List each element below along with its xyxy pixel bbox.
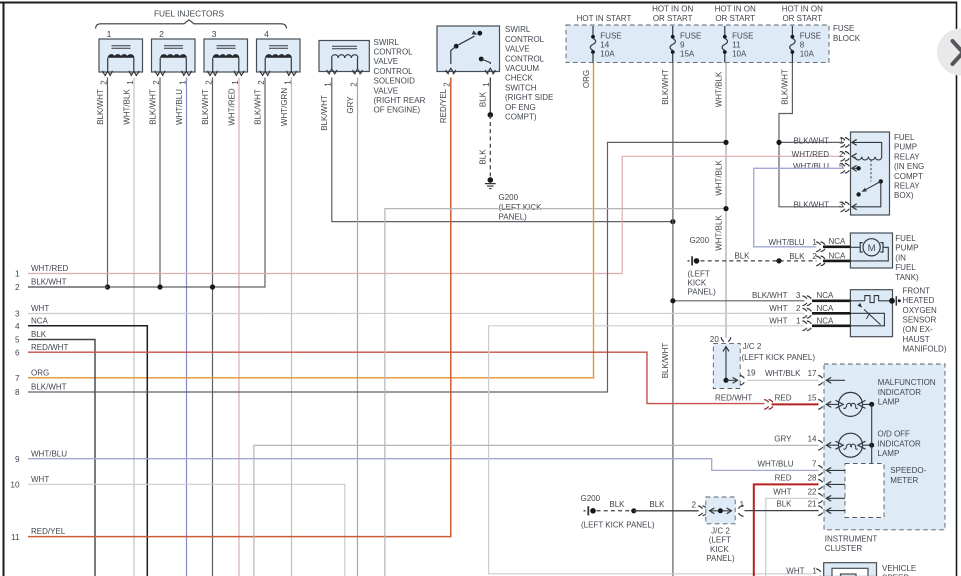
svg-text:CHECK: CHECK <box>505 74 534 83</box>
svg-text:OF ENGINE): OF ENGINE) <box>374 106 421 115</box>
wire solenoid pin2 GRY <box>346 78 358 576</box>
svg-text:(IN: (IN <box>895 253 906 262</box>
svg-text:15: 15 <box>808 393 817 402</box>
page border top <box>0 2 957 4</box>
page border left <box>3 2 5 576</box>
svg-text:FUEL INJECTORS: FUEL INJECTORS <box>154 9 225 19</box>
svg-text:CONTROL: CONTROL <box>505 54 545 63</box>
svg-text:CLUSTER: CLUSTER <box>825 544 863 553</box>
wire line 10 WHT <box>10 475 344 576</box>
svg-text:KICK: KICK <box>710 545 729 554</box>
svg-text:BLK/WHT: BLK/WHT <box>253 89 262 125</box>
svg-text:OXYGEN: OXYGEN <box>903 306 937 315</box>
svg-text:VALVE: VALVE <box>505 45 530 54</box>
svg-text:BLK/WHT: BLK/WHT <box>31 383 67 392</box>
svg-text:BLK/WHT: BLK/WHT <box>320 95 329 131</box>
svg-text:ORG: ORG <box>31 368 49 377</box>
wire injector4 pin2 BLK/WHT <box>28 78 265 288</box>
svg-text:WHT/BLU: WHT/BLU <box>31 449 67 458</box>
svg-text:WHT/BLU: WHT/BLU <box>769 238 805 247</box>
svg-text:VEHICLE: VEHICLE <box>882 564 916 573</box>
svg-text:VALVE: VALVE <box>374 86 399 95</box>
svg-text:G200: G200 <box>581 494 601 503</box>
wire line 9 WHT/BLU <box>15 449 819 470</box>
fuse 8 10A <box>782 4 823 62</box>
wire ORG from fuse 14 <box>28 63 594 378</box>
svg-text:TANK): TANK) <box>895 273 919 282</box>
wire BLK/WHT from fuse 8 to relay pins 1 and 3 <box>776 63 844 207</box>
svg-text:PANEL): PANEL) <box>499 213 528 222</box>
svg-text:INDICATOR: INDICATOR <box>878 439 921 448</box>
svg-text:FUSE: FUSE <box>600 31 621 40</box>
svg-text:G200: G200 <box>690 236 710 245</box>
svg-text:SENSOR: SENSOR <box>903 315 937 324</box>
svg-text:VACUUM: VACUUM <box>505 64 539 73</box>
svg-text:SWIRL: SWIRL <box>374 38 400 47</box>
svg-text:RED: RED <box>775 393 792 402</box>
svg-text:NCA: NCA <box>817 316 835 325</box>
wire solenoid pin1 BLK/WHT to fuse9 feed <box>320 78 675 225</box>
svg-text:22: 22 <box>808 487 817 496</box>
svg-text:WHT: WHT <box>773 487 791 496</box>
svg-text:METER: METER <box>890 476 918 485</box>
svg-text:20: 20 <box>710 335 720 344</box>
ground G200 at check switch <box>485 177 542 221</box>
svg-text:RED/WHT: RED/WHT <box>715 393 752 402</box>
svg-text:HOT IN ON: HOT IN ON <box>652 4 693 13</box>
fuel injector 4 <box>257 29 301 85</box>
junction connector J/C 2 lower <box>691 497 744 563</box>
svg-text:FUEL: FUEL <box>895 263 916 272</box>
svg-text:(RIGHT REAR: (RIGHT REAR <box>374 96 426 105</box>
svg-text:(LEFT KICK PANEL): (LEFT KICK PANEL) <box>581 520 655 529</box>
svg-text:BLK: BLK <box>31 330 47 339</box>
oxygen sensor pin labels and NCA stubs <box>752 291 850 330</box>
svg-text:WHT/BLK: WHT/BLK <box>122 89 131 125</box>
svg-text:1: 1 <box>107 29 112 39</box>
fuel pump caption <box>895 234 919 282</box>
fuel pump pin labels and NCA stubs <box>769 237 851 266</box>
svg-text:1: 1 <box>839 136 844 145</box>
svg-text:MANIFOLD): MANIFOLD) <box>903 344 947 353</box>
svg-text:BLK: BLK <box>479 91 488 107</box>
wire BLK/WHT from fuse 9 <box>661 63 673 576</box>
svg-text:OR START: OR START <box>782 14 822 23</box>
svg-text:COMPT): COMPT) <box>505 113 537 122</box>
svg-text:WHT/BLU: WHT/BLU <box>758 459 794 468</box>
svg-text:PANEL): PANEL) <box>706 554 735 563</box>
wire line 7 ORG <box>15 368 49 383</box>
cluster internal bus to speedometer <box>871 404 873 463</box>
wire injector3 pin2 BLK/WHT <box>201 78 213 576</box>
svg-text:5: 5 <box>15 336 20 345</box>
svg-text:WHT: WHT <box>769 316 787 325</box>
svg-text:BLK: BLK <box>609 500 625 509</box>
svg-text:8: 8 <box>800 40 805 49</box>
svg-text:NCA: NCA <box>31 316 49 325</box>
svg-text:ORG: ORG <box>582 70 591 88</box>
svg-text:BLK: BLK <box>789 252 805 261</box>
wire injector1 pin2 BLK/WHT <box>96 78 108 288</box>
svg-text:1: 1 <box>740 500 745 509</box>
svg-text:9: 9 <box>680 40 685 49</box>
svg-text:WHT/RED: WHT/RED <box>227 88 236 126</box>
svg-text:LAMP: LAMP <box>878 398 900 407</box>
svg-text:17: 17 <box>808 369 817 378</box>
wire line 8 BLK/WHT <box>15 142 726 397</box>
svg-text:NCA: NCA <box>817 291 835 300</box>
wire RED thick to cluster pin15 <box>772 403 819 405</box>
svg-text:1: 1 <box>812 566 817 575</box>
wire line 11 RED/YEL <box>11 78 451 542</box>
svg-text:8: 8 <box>15 388 20 397</box>
svg-text:CONTROL: CONTROL <box>374 67 414 76</box>
svg-text:VALVE: VALVE <box>374 57 399 66</box>
wire injector2 pin2 BLK/WHT <box>148 78 160 288</box>
svg-text:GRY: GRY <box>346 96 355 114</box>
svg-text:RELAY: RELAY <box>894 152 920 161</box>
svg-text:WHT/BLU: WHT/BLU <box>793 162 829 171</box>
svg-text:BLK/WHT: BLK/WHT <box>96 89 105 125</box>
oxygen sensor caption <box>903 287 947 354</box>
svg-text:3: 3 <box>796 291 801 300</box>
svg-text:FRONT: FRONT <box>903 287 931 296</box>
fuel injector 2 <box>152 29 196 85</box>
svg-text:WHT: WHT <box>786 566 804 575</box>
vacuum check switch caption <box>505 25 553 121</box>
svg-text:PUMP: PUMP <box>894 143 917 152</box>
svg-text:INSTRUMENT: INSTRUMENT <box>825 534 878 543</box>
svg-text:WHT/BLK: WHT/BLK <box>714 71 723 107</box>
svg-text:(RIGHT SIDE: (RIGHT SIDE <box>505 93 553 102</box>
fuel pump relay caption <box>894 133 924 200</box>
svg-text:BLK/WHT: BLK/WHT <box>781 69 790 105</box>
svg-text:10: 10 <box>10 481 20 490</box>
solenoid valve swirl control <box>319 41 369 87</box>
wire line 5 BLK <box>15 330 95 576</box>
svg-text:2: 2 <box>15 283 20 292</box>
svg-text:BLK/WHT: BLK/WHT <box>793 201 829 210</box>
wire line 6 RED/WHT <box>15 343 765 404</box>
fuel injector 1 <box>99 29 143 85</box>
svg-text:3: 3 <box>212 29 217 39</box>
svg-text:CONTROL: CONTROL <box>505 35 545 44</box>
svg-text:BLK/WHT: BLK/WHT <box>661 69 670 105</box>
svg-text:COMPT: COMPT <box>894 172 923 181</box>
svg-text:14: 14 <box>808 434 817 443</box>
svg-text:O/D OFF: O/D OFF <box>878 430 911 439</box>
svg-text:BLOCK: BLOCK <box>833 34 861 43</box>
svg-text:SWIRL: SWIRL <box>505 25 531 34</box>
svg-text:BLK/WHT: BLK/WHT <box>793 136 829 145</box>
junction dots on BLK/WHT line 2 <box>105 284 215 289</box>
svg-text:10A: 10A <box>800 49 815 58</box>
svg-text:J/C 2: J/C 2 <box>743 342 762 351</box>
svg-text:7: 7 <box>15 374 20 383</box>
fuel pump relay <box>841 132 890 215</box>
svg-text:BLK: BLK <box>776 500 792 509</box>
wire oxygen pin1 WHT down and to vehicle speed sensor <box>489 326 813 574</box>
svg-text:7: 7 <box>812 459 817 468</box>
svg-text:2: 2 <box>839 150 844 159</box>
svg-text:INDICATOR: INDICATOR <box>878 388 921 397</box>
svg-text:4: 4 <box>15 322 20 331</box>
svg-text:WHT/RED: WHT/RED <box>792 150 830 159</box>
wire injector3 pin1 WHT/RED <box>227 78 239 576</box>
cluster pin connectors and arrows <box>818 375 845 515</box>
svg-text:BLK: BLK <box>649 500 665 509</box>
svg-text:(IN ENG: (IN ENG <box>894 162 924 171</box>
svg-text:SPEEDO-: SPEEDO- <box>890 466 926 475</box>
svg-text:9: 9 <box>15 455 20 464</box>
wire injector2 pin1 WHT/BLU <box>175 78 187 576</box>
wire line 4 NCA <box>15 316 147 576</box>
svg-text:15A: 15A <box>680 49 695 58</box>
svg-text:M: M <box>868 243 876 254</box>
svg-text:WHT: WHT <box>31 475 49 484</box>
wire line 3 WHT <box>15 304 805 319</box>
wire BLK dashed ground to junction <box>597 500 637 514</box>
wire relay pin5 WHT/BLU to fuel pump pin1 <box>754 168 844 247</box>
wire injector1 pin1 WHT/BLK <box>122 78 134 576</box>
svg-text:WHT/BLK: WHT/BLK <box>714 215 723 251</box>
svg-text:OF ENG: OF ENG <box>505 103 536 112</box>
svg-text:FUSE: FUSE <box>732 31 753 40</box>
svg-text:28: 28 <box>808 473 817 482</box>
svg-text:NCA: NCA <box>829 251 847 260</box>
wire oxygen pin3 BLK/WHT from fuse9 <box>670 298 804 303</box>
ground G200 mid <box>688 236 717 296</box>
page border right <box>956 2 958 576</box>
svg-text:SOLENOID: SOLENOID <box>374 77 416 86</box>
svg-text:PUMP: PUMP <box>895 244 918 253</box>
fuse 11 10A <box>715 4 756 62</box>
svg-text:LAMP: LAMP <box>878 449 900 458</box>
cluster pin labels <box>715 369 817 509</box>
svg-text:WHT/BLU: WHT/BLU <box>175 89 184 125</box>
svg-text:3: 3 <box>15 310 20 319</box>
malfunction indicator lamp <box>836 378 936 416</box>
svg-text:BLK/WHT: BLK/WHT <box>148 89 157 125</box>
wire BLK junction to JC2 pin2 <box>634 500 699 511</box>
svg-text:WHT/BLK: WHT/BLK <box>714 160 723 196</box>
wire BLK dashed fuel pump pin2 to ground G200 <box>701 252 817 264</box>
svg-text:MALFUNCTION: MALFUNCTION <box>878 378 936 387</box>
svg-text:RED/WHT: RED/WHT <box>31 343 68 352</box>
svg-text:BLK: BLK <box>479 149 488 165</box>
svg-text:2: 2 <box>796 304 801 313</box>
svg-text:OR START: OR START <box>715 14 755 23</box>
svg-text:(LEFT KICK PANEL): (LEFT KICK PANEL) <box>742 353 816 362</box>
wire BLK JC2 pin1 to cluster pin21 <box>745 510 819 512</box>
svg-text:RED: RED <box>775 473 792 482</box>
svg-text:RED/YEL: RED/YEL <box>31 527 66 536</box>
svg-text:CONTROL: CONTROL <box>374 48 414 57</box>
svg-text:SWITCH: SWITCH <box>505 83 537 92</box>
wire check switch pin1 BLK to ground <box>479 78 494 178</box>
vehicle speed sensor pin label <box>786 566 820 576</box>
svg-text:WHT: WHT <box>31 304 49 313</box>
svg-text:(LEFT: (LEFT <box>709 536 731 545</box>
fuel pump <box>850 233 892 268</box>
svg-text:KICK: KICK <box>688 278 707 287</box>
svg-text:RED/YEL: RED/YEL <box>439 88 448 123</box>
junction connector J/C 2 upper <box>710 335 816 388</box>
svg-text:(LEFT: (LEFT <box>688 270 710 279</box>
svg-text:FUEL: FUEL <box>894 133 915 142</box>
relay pin labels <box>792 136 844 209</box>
svg-text:2: 2 <box>159 29 164 39</box>
ground G200 lower <box>581 494 655 529</box>
speedometer box <box>845 464 927 518</box>
svg-text:BLK/WHT: BLK/WHT <box>31 278 67 287</box>
wire line 1 WHT/RED <box>15 156 844 278</box>
vacuum check switch swirl control <box>437 26 500 87</box>
svg-text:OR START: OR START <box>653 14 693 23</box>
svg-text:14: 14 <box>600 40 609 49</box>
wire WHT/BLK from fuse 11 <box>714 63 726 339</box>
svg-text:BLK/WHT: BLK/WHT <box>661 343 670 379</box>
wire RED thick to cluster pin28 <box>754 484 819 576</box>
svg-text:11: 11 <box>11 533 20 542</box>
svg-text:NCA: NCA <box>829 237 847 246</box>
fuse 9 15A <box>652 4 701 62</box>
instrument cluster box <box>824 364 945 553</box>
svg-text:21: 21 <box>808 500 817 509</box>
svg-text:1: 1 <box>15 270 20 279</box>
wire line 2 BLK/WHT <box>15 278 108 293</box>
wire WHT/BLK branch to bottom <box>385 206 729 576</box>
vehicle speed sensor <box>824 563 917 576</box>
svg-text:5: 5 <box>839 162 844 171</box>
svg-text:RELAY: RELAY <box>894 182 920 191</box>
svg-text:FUSE: FUSE <box>833 24 854 33</box>
wire injector4 pin1 WHT/GRN <box>280 78 292 576</box>
junction dot line8 on WHT/BLK <box>723 140 728 145</box>
svg-text:WHT/GRN: WHT/GRN <box>280 88 289 126</box>
svg-text:NCA: NCA <box>817 304 835 313</box>
svg-text:FUSE: FUSE <box>800 31 821 40</box>
svg-text:10A: 10A <box>600 49 615 58</box>
svg-text:HOT IN ON: HOT IN ON <box>715 4 756 13</box>
svg-text:FUEL: FUEL <box>895 234 916 243</box>
svg-text:J/C 2: J/C 2 <box>711 526 730 535</box>
svg-text:BLK: BLK <box>734 252 750 261</box>
svg-text:2: 2 <box>691 500 696 509</box>
svg-text:BOX): BOX) <box>894 191 914 200</box>
svg-text:BLK/WHT: BLK/WHT <box>201 89 210 125</box>
front heated oxygen sensor <box>850 290 900 337</box>
svg-text:HOT IN START: HOT IN START <box>577 14 632 23</box>
svg-text:HEATED: HEATED <box>903 296 935 305</box>
svg-text:3: 3 <box>839 201 844 210</box>
svg-text:GRY: GRY <box>774 434 792 443</box>
svg-text:1: 1 <box>796 316 801 325</box>
wire WHT/BLK JC2 pin19 to cluster pin17 <box>748 379 819 381</box>
svg-text:HOT IN ON: HOT IN ON <box>782 4 823 13</box>
fuel injector 3 <box>204 29 248 85</box>
svg-text:(LEFT KICK: (LEFT KICK <box>499 203 543 212</box>
svg-text:WHT: WHT <box>769 304 787 313</box>
svg-text:11: 11 <box>732 40 741 49</box>
svg-text:FUSE: FUSE <box>680 31 701 40</box>
solenoid valve caption <box>374 38 426 115</box>
fuse 14 10A <box>577 14 632 63</box>
svg-text:PANEL): PANEL) <box>688 287 717 296</box>
fuse block <box>566 24 861 62</box>
scroll chevron button top-right <box>937 29 961 76</box>
svg-text:(ON EX-: (ON EX- <box>903 325 934 334</box>
fuel injectors group label <box>96 9 287 29</box>
svg-text:6: 6 <box>15 348 20 357</box>
svg-text:WHT/BLK: WHT/BLK <box>765 369 801 378</box>
svg-text:HAUST: HAUST <box>903 335 930 344</box>
svg-text:G200: G200 <box>499 193 519 202</box>
wire GRY to cluster pin14 <box>254 445 819 576</box>
svg-text:WHT/RED: WHT/RED <box>31 264 69 273</box>
wire WHT to cluster pin22 <box>766 498 819 576</box>
svg-text:19: 19 <box>747 368 757 377</box>
svg-text:10A: 10A <box>732 49 747 58</box>
svg-text:BLK/WHT: BLK/WHT <box>752 291 788 300</box>
o/d off indicator lamp <box>836 430 921 458</box>
svg-text:4: 4 <box>264 29 269 39</box>
